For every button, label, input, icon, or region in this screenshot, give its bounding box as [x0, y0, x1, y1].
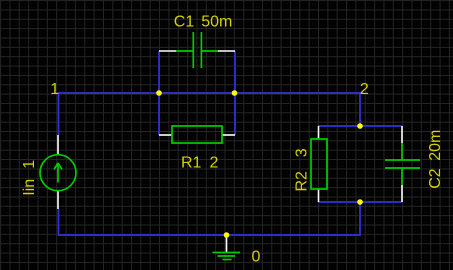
svg-text:C1: C1 — [174, 14, 195, 31]
svg-text:3: 3 — [294, 148, 311, 157]
svg-text:Iin: Iin — [21, 179, 38, 196]
svg-text:R1: R1 — [181, 155, 202, 172]
svg-text:20m: 20m — [427, 130, 444, 161]
svg-text:2: 2 — [360, 81, 369, 98]
svg-text:1: 1 — [21, 160, 38, 169]
svg-text:C2: C2 — [427, 168, 444, 189]
svg-text:0: 0 — [252, 248, 261, 265]
svg-text:50m: 50m — [201, 14, 232, 31]
svg-text:R2: R2 — [294, 171, 311, 192]
svg-text:2: 2 — [210, 155, 219, 172]
svg-text:1: 1 — [50, 81, 59, 98]
